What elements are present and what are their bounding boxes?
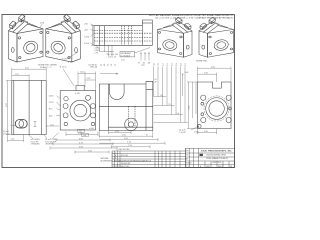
svg-text:1: 1 [112,158,113,160]
svg-text:NO. REV DESCRIPTION OF REVISI: NO. REV DESCRIPTION OF REVISION DATE BY … [111,159,153,162]
isometric view B [46,15,81,63]
vertical leader with label right of comb [182,74,196,119]
svg-text:⌀.81 CB: ⌀.81 CB [3,133,10,136]
logo mark [200,154,203,156]
svg-text:REV C: REV C [218,166,224,168]
svg-text:.50: .50 [154,63,156,66]
caption under isometric views C and D [196,61,208,63]
leader arrow line [100,73,118,74]
leader line from label to front view tab [63,69,74,87]
svg-text:×.50 DP: ×.50 DP [179,131,187,134]
svg-text:1 : 1: 1 : 1 [186,166,189,168]
dimensions below side view H [99,131,165,149]
vertical dimension left of side view [6,81,12,135]
stacked dimension labels left of top view [84,24,90,45]
svg-text:⌀.25: ⌀.25 [121,58,125,61]
side view H (right of front view) [99,81,153,130]
svg-text:REVISIONS: REVISIONS [121,163,131,165]
svg-text:⌀.41: ⌀.41 [50,123,54,126]
boxed basic dimensions [78,129,89,137]
general notes text [149,14,234,20]
leader label right of caption [60,66,68,69]
svg-text:.50: .50 [104,64,106,67]
svg-text:1.625: 1.625 [49,95,55,97]
svg-text:3.5: 3.5 [185,63,187,66]
svg-text:1:2 SCALE: 1:2 SCALE [121,54,131,57]
dimensions below front view [50,132,117,154]
svg-text:ALUMINUM: ALUMINUM [101,160,111,163]
leader note lower-left of right view [179,129,199,134]
svg-text:.75: .75 [108,64,110,67]
small dimension arrows below top view step [140,53,149,61]
svg-text:1.250: 1.250 [84,36,90,38]
svg-text:STEEL FRAME 25 SLIDE W: STEEL FRAME 25 SLIDE W [206,157,228,160]
svg-text:.38: .38 [154,82,157,84]
leader note left of view [3,130,10,135]
dimensions above front view [78,72,96,91]
svg-text:5.00: 5.00 [185,72,189,74]
boxed RETAINER label [120,48,150,58]
svg-text:DO NOT SCALE DWG: DO NOT SCALE DWG [112,165,130,168]
dimensions above left side view [12,68,46,81]
revision / parts list table [112,148,186,167]
svg-text:3: 3 [112,152,113,154]
svg-text:.25: .25 [101,64,103,67]
svg-text:ISOMETRIC: ISOMETRIC [196,61,208,63]
svg-text:⌀.500: ⌀.500 [194,131,199,134]
svg-text:BRKT MTG: BRKT MTG [213,162,222,164]
svg-text:.75: .75 [168,104,171,106]
svg-text:1/1: 1/1 [230,166,232,168]
svg-text:2.0: 2.0 [172,63,174,66]
right side orthographic view [197,82,232,129]
svg-text:1200 INDUSTRIAL DRIVE: 1200 INDUSTRIAL DRIVE [206,154,227,157]
dimension below right view [198,129,217,135]
small step label right of H [154,79,157,83]
svg-text:⊕ 1/2 ⌀: ⊕ 1/2 ⌀ [60,66,68,69]
dimensions below left side view [8,135,24,143]
svg-text:1045: 1045 [206,166,210,168]
dimensions above right view [198,67,232,82]
front orthographic view [60,86,95,131]
svg-text:1.0: 1.0 [177,113,180,115]
svg-text:1.125: 1.125 [49,102,55,104]
svg-text:.19: .19 [138,62,141,64]
slot with counterbore [15,119,27,128]
caption under isometric views A and B [38,64,57,69]
svg-text:J.M.B. PRECISION MFG. INC.: J.M.B. PRECISION MFG. INC. [201,151,233,153]
top orthographic view with hidden lines [94,20,152,45]
vertical dimension left of right view [187,82,198,129]
slot leader and small dimension [11,122,37,127]
svg-text:3.0: 3.0 [181,63,183,66]
svg-text:1.2: 1.2 [115,64,117,67]
svg-text:.38 DEEP: .38 DEEP [45,144,54,146]
svg-text:⌀.500: ⌀.500 [89,127,94,130]
svg-text:△ REV NOTES: △ REV NOTES [117,148,131,151]
left side orthographic view [12,81,46,135]
svg-text:.88: .88 [148,62,151,64]
stacked dimension labels left of front view [49,95,55,117]
title block texts [186,150,232,168]
svg-text:SCALE: SCALE [186,161,192,164]
drill note below left view [31,138,58,145]
svg-text:ECN 104: ECN 104 [121,155,128,157]
isometric view A [9,15,44,63]
svg-text:.75: .75 [158,63,160,66]
svg-text:1.00 1.25: 1.00 1.25 [108,56,116,58]
svg-text:1.2: 1.2 [163,63,165,66]
rotated ordinate labels row [101,64,117,67]
ordinate comb dimensions right of side view [154,67,189,123]
svg-text:1.0: 1.0 [111,64,113,67]
svg-text:2 PLACES: 2 PLACES [31,143,41,146]
svg-text:UNC-2B: UNC-2B [90,67,98,69]
svg-text:.50: .50 [160,95,163,97]
vertical dimension left of top view [91,26,94,46]
svg-text:1.5: 1.5 [167,63,169,66]
svg-text:1.00: 1.00 [83,135,87,137]
svg-text:.XX +/-.01 .XXX +/-.005 ANGL: .XX +/-.01 .XXX +/-.005 ANGLES +/- 0 30'… [155,17,234,20]
title block [186,148,235,167]
svg-text:2.500: 2.500 [84,43,90,45]
long datum leader between side and front views [46,81,59,127]
isometric view D [199,17,234,57]
isometric view C [158,17,193,57]
svg-text:2.5: 2.5 [176,63,178,66]
leader labels below top view [62,47,101,64]
